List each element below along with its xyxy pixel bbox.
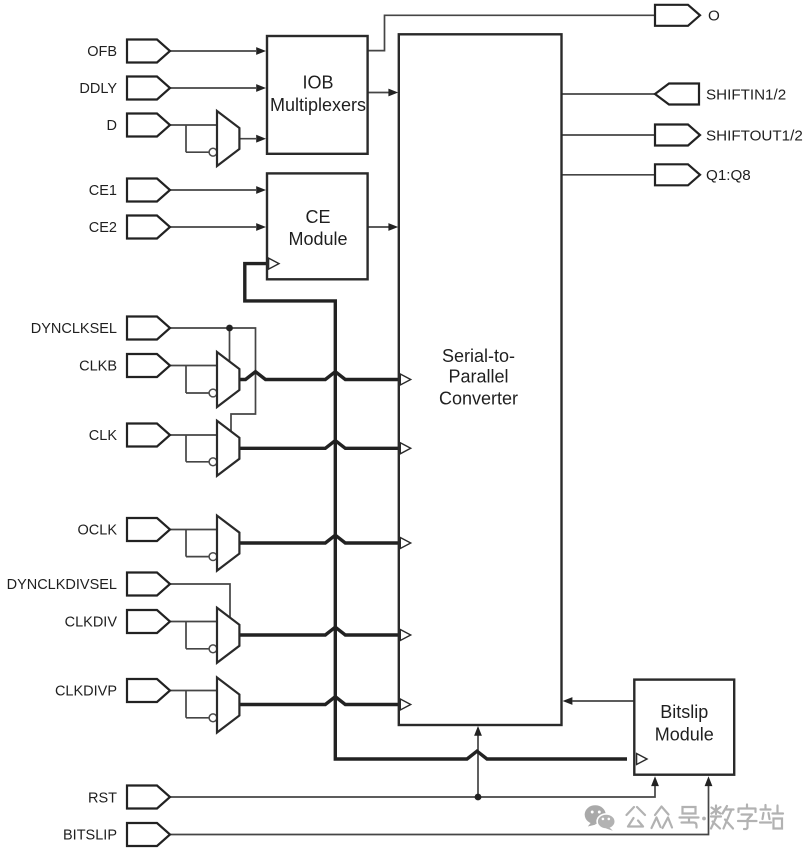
svg-text:RST: RST (88, 790, 117, 806)
svg-text:Serial-to-: Serial-to- (442, 346, 515, 366)
svg-text:CE1: CE1 (89, 183, 117, 199)
svg-text:Bitslip: Bitslip (660, 702, 708, 722)
svg-text:BITSLIP: BITSLIP (63, 828, 117, 844)
svg-text:Multiplexers: Multiplexers (270, 95, 366, 115)
svg-text:Converter: Converter (439, 388, 518, 408)
svg-text:Q1:Q8: Q1:Q8 (706, 167, 751, 184)
svg-text:IOB: IOB (302, 73, 333, 93)
svg-text:Module: Module (288, 229, 347, 249)
svg-text:Parallel: Parallel (448, 367, 508, 387)
svg-text:CLKB: CLKB (79, 359, 117, 375)
svg-text:CLK: CLK (89, 428, 118, 444)
svg-text:CE: CE (305, 207, 330, 227)
svg-text:D: D (107, 118, 117, 134)
svg-text:OFB: OFB (87, 44, 117, 60)
svg-text:SHIFTIN1/2: SHIFTIN1/2 (706, 86, 786, 103)
svg-text:DYNCLKSEL: DYNCLKSEL (31, 321, 117, 337)
svg-text:CE2: CE2 (89, 220, 117, 236)
svg-text:OCLK: OCLK (78, 523, 118, 539)
svg-text:DDLY: DDLY (79, 81, 117, 97)
svg-text:Module: Module (655, 725, 714, 745)
svg-text:CLKDIV: CLKDIV (65, 615, 118, 631)
svg-text:O: O (708, 8, 720, 25)
svg-text:CLKDIVP: CLKDIVP (55, 684, 117, 700)
svg-text:SHIFTOUT1/2: SHIFTOUT1/2 (706, 127, 803, 144)
svg-text:DYNCLKDIVSEL: DYNCLKDIVSEL (7, 577, 117, 593)
